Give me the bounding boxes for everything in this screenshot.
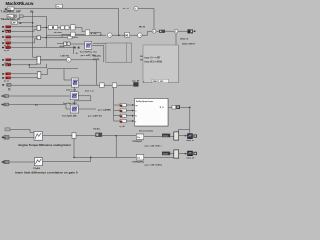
wire row1 to M5 bbox=[75, 27, 85, 31]
svg-text:tq_dif: tq_dif bbox=[120, 125, 126, 128]
block C2 dark bbox=[176, 105, 180, 109]
unit delay z1 bbox=[64, 42, 67, 45]
svg-text:TuneTqfr(1.5M): TuneTqfr(1.5M) bbox=[62, 116, 77, 118]
wire unit delay out to LUT0 bbox=[70, 43, 85, 45]
cluster block c3 bbox=[61, 26, 65, 29]
wire V2 vertical bbox=[45, 16, 47, 47]
dark block pair right bbox=[188, 29, 191, 33]
svg-text:100.Sec: 100.Sec bbox=[93, 129, 100, 131]
white box W1 bbox=[135, 99, 169, 127]
svg-text:[A]: [A] bbox=[30, 11, 34, 14]
block B6 on bus bbox=[100, 83, 105, 88]
scope A bbox=[188, 134, 193, 139]
panel P bbox=[143, 45, 179, 83]
wire circle3 down to panel bbox=[175, 33, 177, 45]
stub A0 bbox=[5, 8, 7, 10]
wire M5 out to bus bbox=[90, 33, 106, 36]
svg-text:1/TORQDIFlg: 1/TORQDIFlg bbox=[132, 162, 145, 164]
wire cluster row1 bbox=[52, 26, 70, 28]
sum S2r bbox=[152, 29, 156, 33]
port row104 left block bbox=[2, 103, 9, 106]
svg-text:time 1...5: time 1...5 bbox=[85, 89, 94, 92]
wire blockH to tagI bbox=[76, 135, 96, 137]
port P1 bbox=[120, 104, 127, 107]
wire M3 out bbox=[41, 59, 67, 61]
mux M2 bbox=[37, 36, 41, 40]
svg-text:nmot: nmot bbox=[163, 135, 168, 138]
block B2b bbox=[14, 15, 16, 17]
port P2 bbox=[120, 109, 127, 112]
svg-text:pw = wAT|BN: pw = wAT|BN bbox=[98, 109, 111, 112]
port R1 bbox=[2, 26, 11, 32]
sum S3r bbox=[174, 29, 178, 33]
port P3 bbox=[120, 114, 127, 117]
svg-text:1/TORQDIF: 1/TORQDIF bbox=[132, 141, 143, 143]
port R9 bbox=[2, 77, 11, 83]
tune box outline bbox=[106, 43, 132, 62]
sum S2 bbox=[66, 58, 71, 63]
rowCup left block bbox=[4, 136, 9, 140]
block D1 bbox=[136, 134, 144, 140]
junction dot 113,85 bbox=[114, 85, 115, 86]
sum S4 bbox=[108, 33, 113, 38]
arrowheads ports bbox=[132, 104, 134, 122]
block C1 after W1 bbox=[172, 105, 176, 109]
wire M2 row cont bbox=[72, 37, 78, 39]
port R7 dark bbox=[2, 64, 11, 67]
wire lut3 out bbox=[78, 108, 96, 110]
wire R5 to unit delay bbox=[11, 46, 74, 48]
wire row2 to M5 bbox=[75, 33, 85, 35]
wire port1 to W1 bbox=[126, 104, 134, 106]
wire ports feed vertical bbox=[113, 87, 115, 121]
tag I dark bbox=[95, 133, 102, 137]
wire rowD line bbox=[9, 161, 35, 163]
mark end R5 line a bbox=[74, 47, 76, 49]
rowCup stub bbox=[2, 137, 4, 139]
port R2 dark bbox=[2, 30, 11, 33]
wire R3 to M2 bbox=[11, 36, 37, 38]
outport rowB bbox=[193, 152, 197, 155]
LUT1 block bbox=[72, 78, 79, 87]
svg-text:nmot_wf: nmot_wf bbox=[186, 157, 194, 160]
wire B1 out top long bbox=[14, 8, 119, 10]
wire z vertical bbox=[73, 46, 75, 54]
wire branch to muxA top bbox=[178, 129, 189, 132]
goto tag end bus bbox=[133, 82, 138, 86]
block G bbox=[34, 132, 43, 141]
wire muxA to scopeA bbox=[179, 135, 188, 137]
wire junction116 down bbox=[115, 136, 117, 158]
svg-text:LPF: LPF bbox=[12, 23, 17, 25]
LUT2 block bbox=[70, 92, 78, 100]
svg-text:LTM_Filt: LTM_Filt bbox=[61, 54, 70, 57]
sum S5 bbox=[138, 33, 143, 38]
block B2 bbox=[7, 15, 14, 19]
wire R6 to sum S2 bbox=[11, 59, 67, 61]
rowD left block bbox=[4, 160, 9, 164]
wire D2 out to muxB bbox=[144, 156, 174, 158]
svg-text:nmot: nmot bbox=[6, 59, 11, 62]
svg-text:nmot_w: nmot_w bbox=[186, 139, 194, 142]
junction dot 189,107 bbox=[189, 107, 190, 108]
svg-text:tq_ref: tq_ref bbox=[4, 49, 9, 52]
mux M3 bbox=[37, 56, 41, 64]
wire segment y43 left of box bbox=[93, 42, 106, 44]
svg-text:(1) y(B): (1) y(B) bbox=[93, 56, 101, 58]
svg-text:T_NORMAL_OFF: T_NORMAL_OFF bbox=[1, 10, 22, 14]
wire W1 out to down right bbox=[180, 107, 190, 133]
wire sum2 out bbox=[156, 30, 174, 32]
wire lut2 cascade bbox=[74, 96, 91, 105]
svg-text:nmot: nmot bbox=[163, 153, 168, 156]
svg-text:[b]: [b] bbox=[35, 104, 38, 106]
wire R7 to M3 bbox=[11, 64, 37, 66]
svg-text:MachXRk.ar.w: MachXRk.ar.w bbox=[6, 1, 34, 6]
wire port stub 3 bbox=[114, 115, 120, 117]
cluster block c5 bbox=[71, 25, 76, 30]
svg-text:tony / 5 = +487: tony / 5 = +487 bbox=[145, 57, 162, 60]
port R6 bbox=[2, 59, 11, 65]
block B4 bbox=[11, 21, 18, 25]
arrow bus into sum4 bbox=[100, 34, 103, 36]
arrow right end bbox=[193, 30, 194, 32]
junction dot 90,157 bbox=[90, 157, 91, 158]
wire M2 out bbox=[41, 37, 68, 39]
cluster block c1 bbox=[48, 25, 52, 29]
wire rowCup line1 bbox=[9, 136, 34, 138]
mux B bbox=[174, 150, 179, 158]
block D2 bbox=[136, 155, 144, 161]
rowD stub bbox=[2, 161, 4, 163]
svg-text:TuneTqfPwp_Out: TuneTqfPwp_Out bbox=[80, 50, 97, 53]
tag B rowB bbox=[162, 152, 170, 156]
svg-text:tqfr: tqfr bbox=[6, 46, 9, 49]
mux A bbox=[174, 132, 179, 140]
wire port stub 1 bbox=[114, 104, 120, 106]
mux M4 bbox=[37, 72, 41, 78]
wire blockH down branch bbox=[74, 138, 136, 157]
svg-text:SatDynUpperLower: SatDynUpperLower bbox=[136, 100, 154, 103]
junction dot 116,135 bbox=[116, 135, 117, 136]
wire S2 out to vertical 98.8 bbox=[71, 60, 97, 85]
port bus85 left block bbox=[2, 83, 11, 86]
wire tagI to D1 bbox=[102, 135, 137, 137]
wire sum_top to right corner down bbox=[138, 9, 154, 30]
svg-text:(T) |B|: (T) |B| bbox=[93, 59, 100, 61]
block B5 bbox=[125, 32, 130, 37]
wire circle5 right bend up bbox=[142, 31, 152, 35]
svg-text:y: y bbox=[135, 121, 136, 123]
tune box inner divider bbox=[125, 43, 127, 62]
svg-text:Engine Torque Difference scali: Engine Torque Difference scaling factor bbox=[19, 143, 73, 147]
wire vertical from top line to bus bbox=[118, 9, 120, 36]
wire M4 out to LUT1 bbox=[41, 69, 72, 80]
block B_top56 bbox=[56, 4, 62, 8]
svg-text:tq_s: tq_s bbox=[6, 30, 10, 33]
port R3 bbox=[2, 36, 11, 42]
wire W1 out bbox=[168, 106, 172, 108]
block row2 c6 bbox=[71, 32, 76, 37]
block on M2 line bbox=[67, 36, 72, 39]
wire rowCup extra upper bbox=[10, 129, 34, 132]
wire B4 out bbox=[18, 22, 33, 24]
wire z in bbox=[57, 43, 64, 45]
wire LUT1 out bbox=[64, 68, 78, 70]
wire out arrow right end bbox=[193, 30, 196, 32]
tag before sum2 bbox=[159, 30, 165, 33]
wire port stub 4 bbox=[114, 120, 120, 122]
block M5 bbox=[85, 30, 90, 36]
wire port4 to W1 bbox=[126, 120, 134, 122]
outport rowA bbox=[193, 134, 197, 137]
wire M1 out bbox=[41, 26, 49, 28]
wire rowD long to vertical up bbox=[43, 157, 91, 161]
wire row2 bend bbox=[62, 34, 71, 37]
port P4 bbox=[120, 120, 127, 123]
wire V1 left vertical bbox=[33, 11, 37, 57]
port R5 bbox=[2, 46, 11, 52]
svg-text:tmot_l 1..5: tmot_l 1..5 bbox=[66, 89, 77, 92]
svg-text:DIAG_NMOT: DIAG_NMOT bbox=[182, 43, 196, 46]
wire LUT1-LUT2 vertical bbox=[74, 87, 76, 92]
svg-text:tony (4.5 (+4/5h): tony (4.5 (+4/5h) bbox=[145, 60, 163, 63]
dot above left of bus88 bbox=[8, 88, 10, 90]
svg-text:lower limit difference correla: lower limit difference correlation on ga… bbox=[15, 171, 78, 175]
svg-text:nmot: nmot bbox=[6, 26, 11, 29]
wire lut2 in bbox=[9, 95, 71, 97]
tag A rowA bbox=[162, 134, 170, 138]
svg-text:SaturationDyn: SaturationDyn bbox=[139, 130, 154, 133]
LUT0 block bbox=[85, 42, 92, 50]
mux M1 bbox=[37, 25, 41, 30]
wire tagB to muxB bbox=[170, 152, 174, 154]
wire R8 to M4 bbox=[11, 73, 38, 75]
wire bottom loop y68 bbox=[29, 64, 47, 68]
port row96 left block bbox=[2, 95, 9, 98]
wire port2 to W1 bbox=[126, 110, 134, 112]
rowCup upper stub block bbox=[5, 128, 10, 131]
mark right of B4 bbox=[19, 22, 21, 24]
block B1 bbox=[8, 7, 15, 11]
svg-text:u: u bbox=[135, 110, 136, 112]
wire LUT0 out to box bbox=[92, 46, 104, 63]
junction dot 32,22 bbox=[32, 22, 33, 23]
svg-text:tm_st: tm_st bbox=[123, 7, 129, 10]
junction dot 46,37 bbox=[46, 37, 47, 38]
wire R9 to M4 bbox=[11, 77, 38, 79]
block B3 bbox=[19, 15, 23, 18]
cluster block c4 bbox=[65, 26, 69, 29]
svg-text:DIAG_N: DIAG_N bbox=[180, 37, 189, 40]
port R4 bbox=[2, 42, 11, 48]
wire R1 to M1 bbox=[11, 26, 37, 28]
scope B bbox=[188, 151, 193, 156]
svg-text:pw = wAT | W |: pw = wAT | W | bbox=[88, 115, 102, 118]
svg-text:yyy = wAT | DAr |: yyy = wAT | DAr | bbox=[145, 145, 162, 148]
wire port3 to W1 bbox=[126, 115, 134, 117]
mark end R5 line b bbox=[78, 47, 80, 49]
svg-text:1/TqDiff: 1/TqDiff bbox=[33, 168, 40, 170]
junction dot 29,64 bbox=[29, 64, 30, 65]
svg-text:NMOT_DIF: NMOT_DIF bbox=[153, 81, 164, 83]
wire bus85 bbox=[11, 84, 133, 86]
svg-text:min max: min max bbox=[54, 32, 63, 34]
LUT3 block bbox=[70, 105, 78, 113]
wire muxB to scopeB bbox=[179, 153, 188, 155]
wire bus sum4 to B5 bbox=[112, 34, 125, 36]
block F bbox=[35, 158, 43, 166]
svg-text:pv_av: pv_av bbox=[4, 81, 9, 83]
arrow muxB out bbox=[185, 153, 187, 155]
sum S_top bbox=[134, 6, 138, 10]
svg-text:A_Sw: A_Sw bbox=[91, 32, 97, 35]
wire bus start bbox=[46, 34, 101, 36]
wire lut3 in bbox=[9, 105, 71, 110]
arrow muxA out bbox=[185, 135, 187, 137]
svg-text:|u|: |u| bbox=[125, 34, 128, 37]
wire port stub 2 bbox=[114, 110, 120, 112]
wire blockG to blockH bbox=[43, 135, 73, 137]
junction dot 46,27 bbox=[46, 27, 47, 28]
svg-text:TransferGain_off: TransferGain_off bbox=[1, 18, 20, 21]
wire B5 to circle5 bbox=[130, 34, 138, 36]
svg-text:tm_w: tm_w bbox=[139, 26, 145, 29]
unit delay z2 bbox=[67, 42, 70, 45]
wire circle3 to dark blocks bbox=[178, 30, 188, 32]
port R8 bbox=[2, 73, 11, 76]
junction dot 118,35 bbox=[118, 35, 119, 36]
wire R4 to M2 bbox=[11, 39, 37, 43]
svg-text:tq_l: tq_l bbox=[6, 64, 10, 67]
wire R2 to M1 bbox=[11, 29, 37, 31]
svg-text:nmot_fl: nmot_fl bbox=[4, 39, 11, 42]
cluster block c2 bbox=[54, 25, 58, 29]
svg-text:yyy = wAT | DAhr|: yyy = wAT | DAhr| bbox=[145, 163, 163, 166]
junction dot 74,157 bbox=[73, 157, 74, 158]
block H small on line bbox=[72, 133, 76, 139]
block B7 on bus bbox=[112, 83, 117, 88]
wire D1 out to muxA bbox=[144, 136, 174, 138]
svg-text:nmot: nmot bbox=[6, 36, 11, 39]
wire B3 out bbox=[23, 15, 46, 17]
